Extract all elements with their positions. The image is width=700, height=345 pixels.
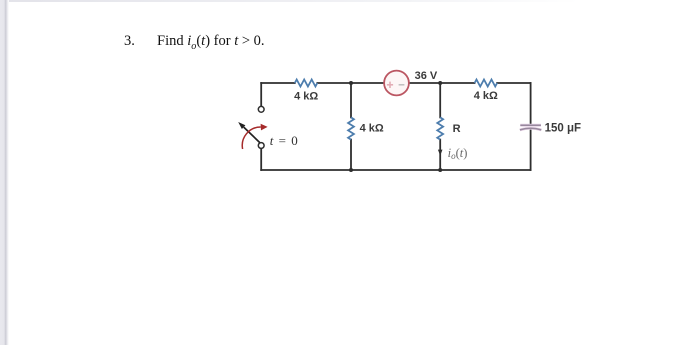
svg-text:R: R [453, 123, 461, 135]
svg-text:4 kΩ: 4 kΩ [294, 91, 318, 103]
svg-text:t = 0: t = 0 [270, 133, 299, 148]
svg-text:36 V: 36 V [415, 70, 438, 82]
svg-text:150 μF: 150 μF [545, 122, 581, 134]
svg-text:4 kΩ: 4 kΩ [360, 123, 384, 135]
svg-text:4 kΩ: 4 kΩ [474, 90, 498, 102]
svg-text:io(t): io(t) [448, 146, 468, 161]
